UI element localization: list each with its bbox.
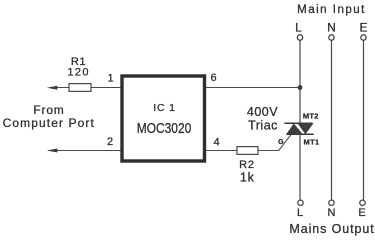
svg-text:1k: 1k bbox=[240, 171, 255, 185]
svg-text:From: From bbox=[33, 103, 64, 117]
wire pin 2 bbox=[50, 150, 121, 152]
svg-text:Main Input: Main Input bbox=[297, 4, 366, 16]
wire triac MT1 to L output bbox=[299, 134, 301, 200]
terminal N (mains input) bbox=[327, 21, 336, 41]
svg-text:Triac: Triac bbox=[248, 119, 278, 133]
svg-text:MOC3020: MOC3020 bbox=[137, 121, 192, 137]
wire R2 to gate bbox=[258, 135, 291, 151]
optocoupler IC1 MOC3020 box bbox=[122, 76, 205, 161]
wire pin 4 to R2 bbox=[206, 150, 237, 152]
triac top bar (MT2 side) bbox=[284, 122, 312, 124]
svg-text:E: E bbox=[358, 207, 365, 219]
terminal L (mains output) bbox=[297, 200, 303, 219]
svg-text:MT2: MT2 bbox=[303, 111, 319, 120]
terminal N (mains output) bbox=[328, 200, 336, 219]
svg-text:N: N bbox=[327, 21, 336, 35]
svg-text:Mains Output: Mains Output bbox=[289, 222, 374, 236]
label 400V Triac bbox=[247, 105, 278, 133]
resistor R2 bbox=[237, 147, 258, 155]
svg-text:Computer Port: Computer Port bbox=[3, 116, 95, 130]
svg-text:1: 1 bbox=[107, 72, 113, 84]
svg-text:400V: 400V bbox=[247, 105, 278, 119]
svg-text:L: L bbox=[297, 207, 303, 219]
svg-text:N: N bbox=[328, 207, 336, 219]
triac Q1 bbox=[284, 111, 319, 146]
svg-text:4: 4 bbox=[213, 137, 219, 149]
triac left triangle (apex up) bbox=[286, 123, 303, 134]
terminal E (mains output) bbox=[358, 200, 365, 219]
resistor R1 bbox=[69, 84, 91, 92]
triac bottom bar (MT1 side) bbox=[286, 133, 314, 135]
arrow on pin 2 wire bbox=[47, 149, 58, 153]
svg-text:IC 1: IC 1 bbox=[153, 102, 175, 114]
svg-text:R2: R2 bbox=[239, 159, 255, 171]
junction node: pin 6 wire joins L line bbox=[298, 85, 303, 90]
svg-text:120: 120 bbox=[67, 66, 90, 78]
wire L input to triac MT2 bbox=[299, 40, 301, 123]
svg-text:6: 6 bbox=[210, 72, 216, 84]
wire N input to N output bbox=[331, 40, 333, 200]
wire pin 1 bbox=[50, 87, 121, 89]
svg-text:G: G bbox=[278, 139, 284, 146]
arrow on pin 1 wire bbox=[47, 86, 58, 90]
wire pin 6 to junction bbox=[206, 87, 300, 89]
wire E input to E output bbox=[363, 40, 365, 200]
svg-text:E: E bbox=[359, 21, 367, 35]
triac right triangle (apex down) bbox=[297, 123, 313, 134]
label From Computer Port bbox=[3, 103, 95, 130]
terminal E (mains input) bbox=[359, 21, 367, 41]
svg-text:2: 2 bbox=[107, 136, 113, 148]
svg-text:MT1: MT1 bbox=[304, 138, 320, 147]
svg-text:L: L bbox=[295, 21, 302, 35]
terminal L (mains input) bbox=[295, 21, 303, 41]
